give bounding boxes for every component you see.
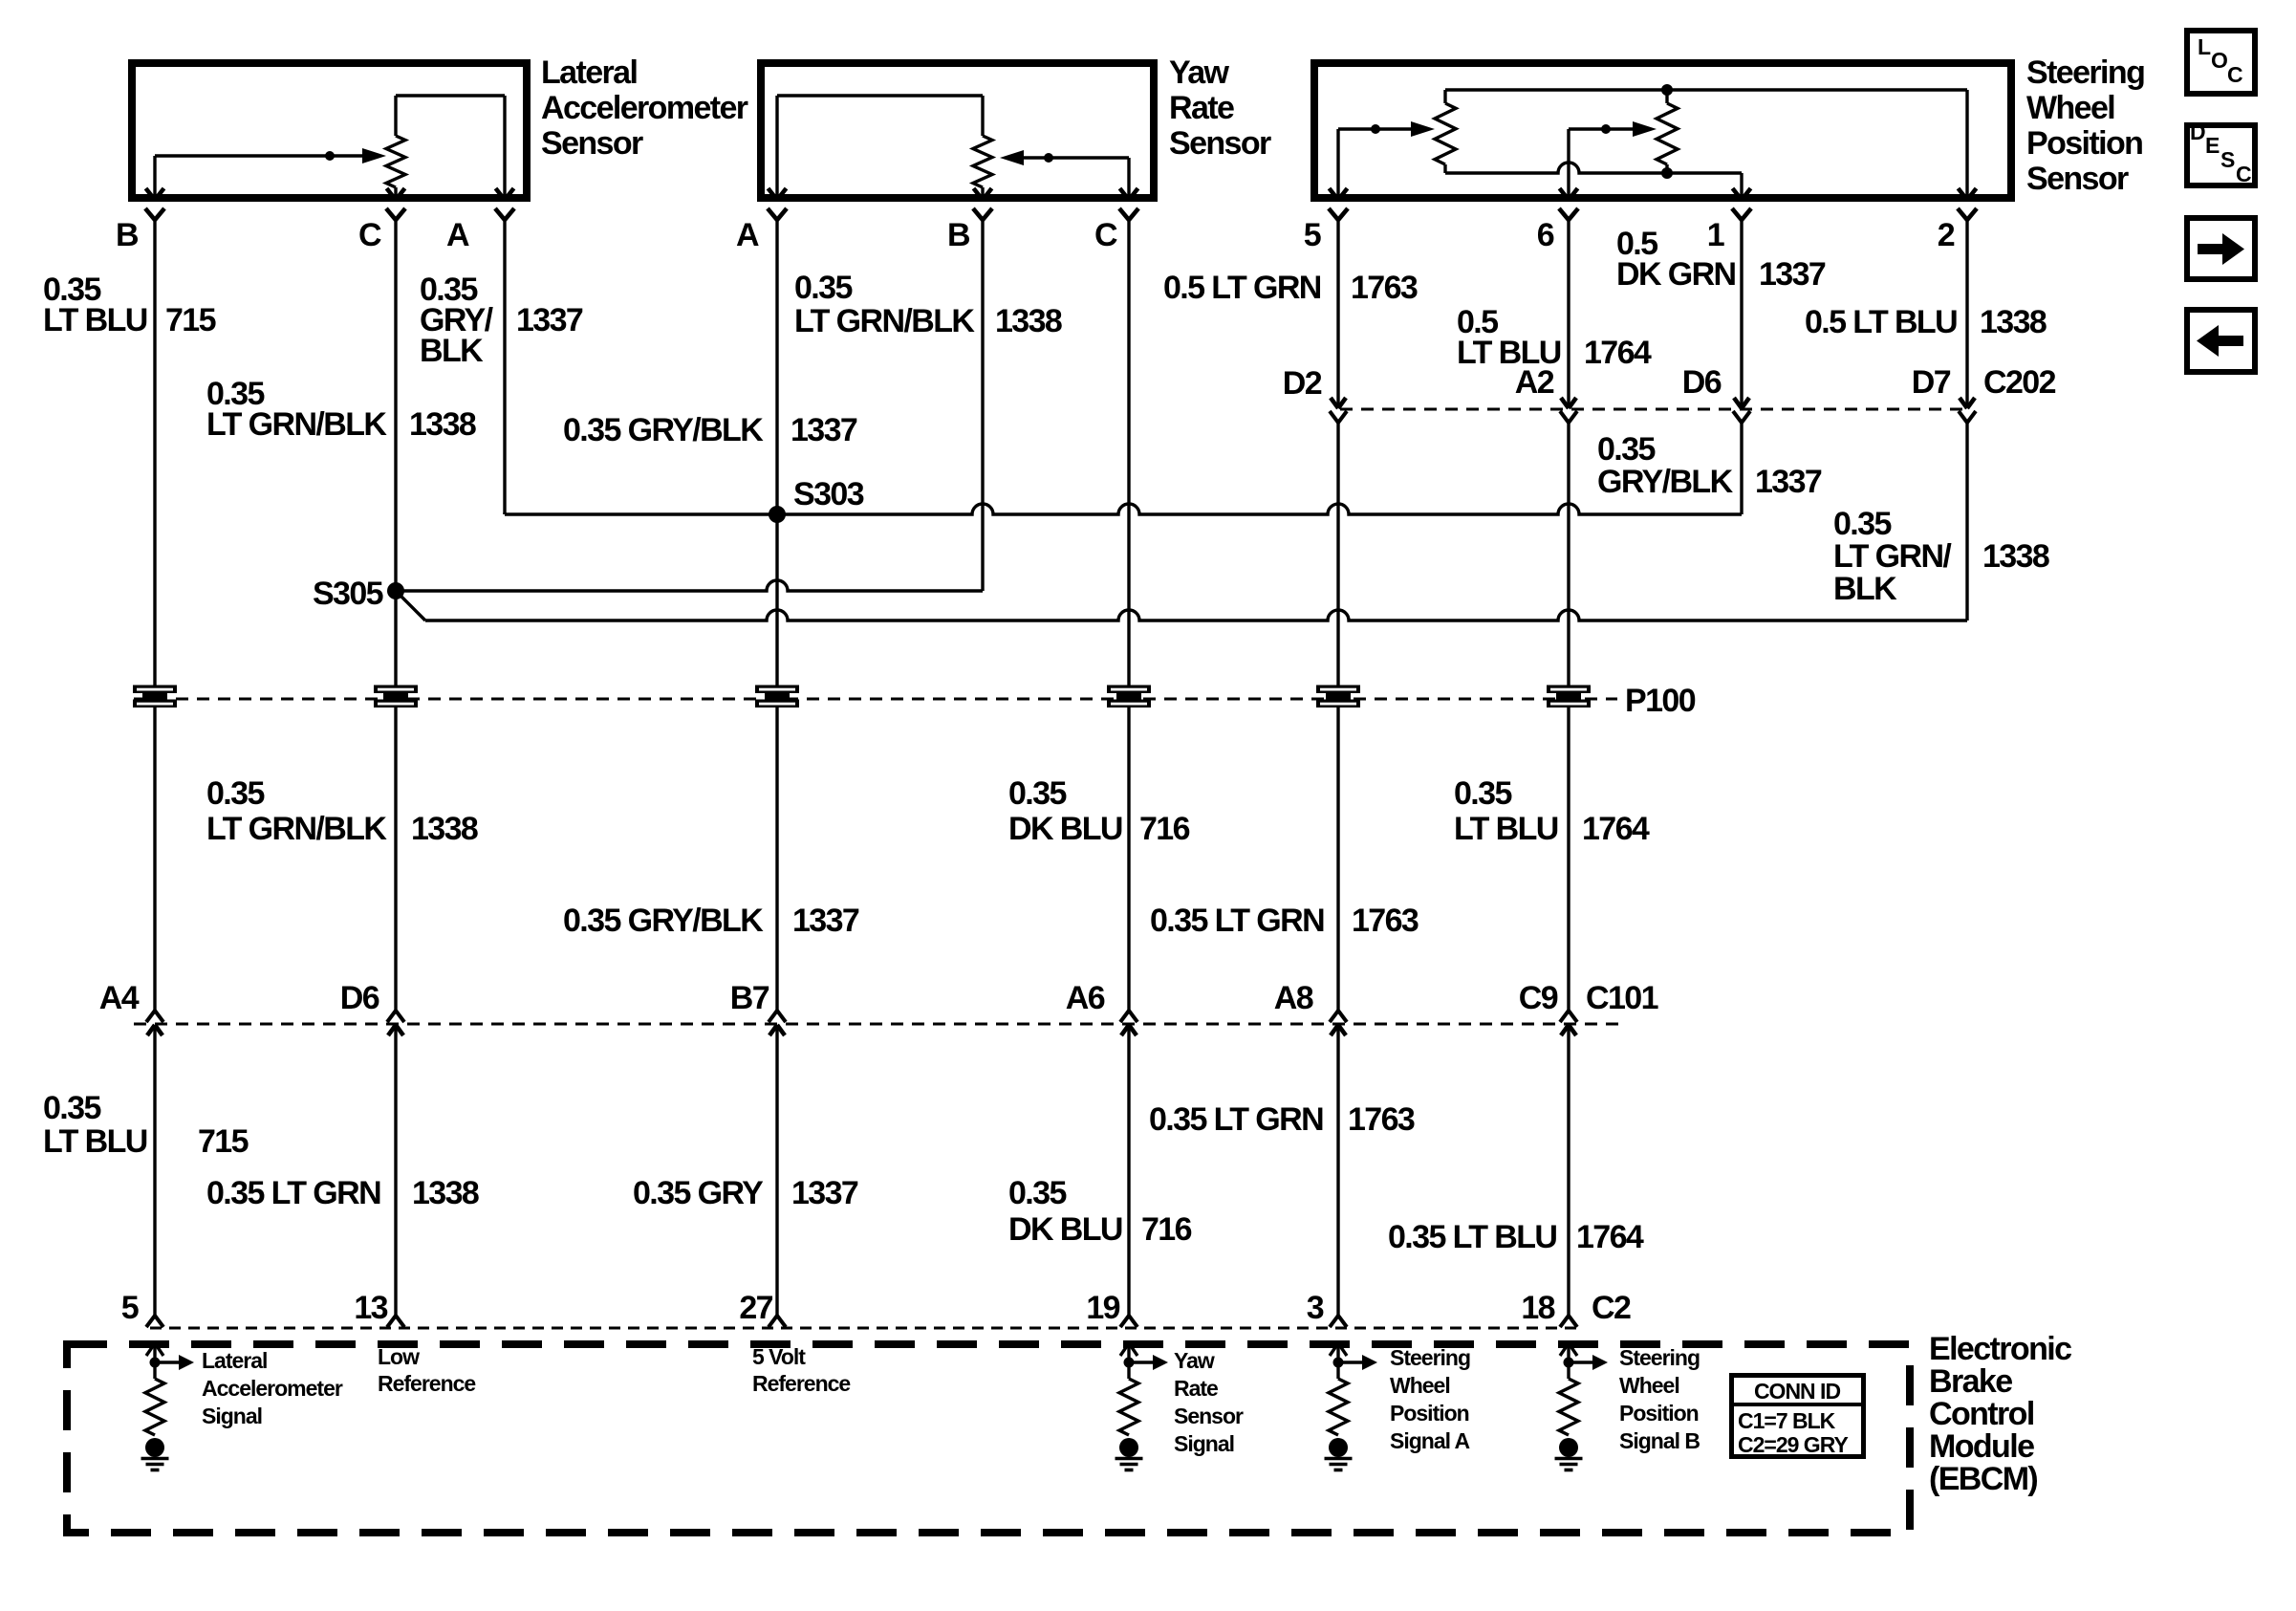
svg-text:A4: A4 bbox=[99, 980, 140, 1016]
label EBCM pin 18 bbox=[1521, 1290, 1554, 1326]
label C202 pin D7 bbox=[1912, 364, 1951, 401]
svg-text:0.35 GRY/BLK: 0.35 GRY/BLK bbox=[563, 903, 764, 939]
svg-text:715: 715 bbox=[198, 1123, 249, 1160]
label C101 pin A6 bbox=[1066, 980, 1105, 1016]
svg-text:Module: Module bbox=[1929, 1428, 2034, 1465]
svg-text:0.35: 0.35 bbox=[43, 1090, 100, 1126]
wire 1764 LT BLU (SWPS 6 / signal B) bbox=[1567, 219, 1570, 1316]
svg-text:Wheel: Wheel bbox=[1619, 1373, 1679, 1398]
svg-text:Steering: Steering bbox=[1390, 1345, 1470, 1370]
svg-text:1: 1 bbox=[1707, 217, 1724, 253]
label 0.5 LT BLU 1764 bbox=[1457, 304, 1652, 371]
svg-text:1338: 1338 bbox=[1980, 304, 2047, 340]
label 0.35 LT BLU 1764 (lower) bbox=[1388, 1219, 1644, 1255]
label C2 bbox=[1592, 1290, 1631, 1326]
svg-text:LT GRN/: LT GRN/ bbox=[1833, 538, 1952, 575]
svg-text:0.35 LT GRN: 0.35 LT GRN bbox=[1150, 903, 1324, 939]
svg-text:P100: P100 bbox=[1625, 683, 1696, 719]
junction S303 bbox=[769, 506, 786, 523]
svg-text:1338: 1338 bbox=[411, 811, 478, 847]
svg-text:13: 13 bbox=[354, 1290, 387, 1326]
svg-text:Wheel: Wheel bbox=[2026, 90, 2114, 126]
label C101 pin A4 bbox=[99, 980, 140, 1016]
svg-text:1763: 1763 bbox=[1348, 1101, 1415, 1138]
svg-text:1763: 1763 bbox=[1351, 270, 1418, 306]
svg-text:0.5 LT GRN: 0.5 LT GRN bbox=[1163, 270, 1321, 306]
svg-text:O: O bbox=[2211, 48, 2228, 73]
svg-text:A: A bbox=[736, 217, 759, 253]
label C202 bbox=[1983, 364, 2056, 401]
wiper arrow into pot 1 bbox=[1411, 121, 1435, 137]
svg-text:1338: 1338 bbox=[995, 303, 1062, 339]
svg-text:Rate: Rate bbox=[1169, 90, 1234, 126]
wiper arrow into resistor R-yaw bbox=[1000, 150, 1024, 165]
svg-text:1337: 1337 bbox=[516, 302, 583, 338]
label 0.35 GRY/BLK 1337 (Yaw A) bbox=[563, 412, 857, 448]
Steering Wheel Position Sensor box bbox=[1314, 63, 2011, 198]
svg-text:715: 715 bbox=[165, 302, 216, 338]
wire SWPS wiper 1 from pin 5 bbox=[1330, 129, 1415, 200]
svg-text:CONN ID: CONN ID bbox=[1754, 1379, 1841, 1404]
svg-text:5: 5 bbox=[1304, 217, 1321, 253]
EBCM input circuit pin 19 (resistor + ground) bbox=[1116, 1340, 1169, 1470]
svg-text:1763: 1763 bbox=[1352, 903, 1419, 939]
pin 1 terminal chevron bbox=[1707, 208, 1751, 253]
wire 1338 Low Reference (Lateral C) bbox=[394, 219, 397, 1316]
label Lateral Accelerometer Sensor bbox=[541, 54, 748, 162]
label 0.35 LT BLU 715 (lower) bbox=[43, 1090, 249, 1160]
label P100 bbox=[1625, 683, 1696, 719]
wire splice S303 bus bbox=[505, 504, 1742, 514]
svg-text:Brake: Brake bbox=[1929, 1363, 2012, 1400]
svg-text:S303: S303 bbox=[793, 476, 864, 512]
junction S305 bbox=[387, 582, 404, 599]
resistor Lateral sense element bbox=[386, 136, 405, 200]
connector C2 interface line bbox=[146, 1316, 1582, 1328]
grommet P100 dashed line bbox=[134, 698, 1617, 701]
wire Yaw wiper line bbox=[1021, 156, 1129, 159]
svg-text:A2: A2 bbox=[1515, 364, 1554, 401]
svg-text:6: 6 bbox=[1537, 217, 1554, 253]
label Electronic Brake Control Module (EBCM) bbox=[1929, 1331, 2071, 1497]
svg-text:A8: A8 bbox=[1274, 980, 1313, 1016]
svg-text:C: C bbox=[358, 217, 381, 253]
label S303 bbox=[793, 476, 864, 512]
wire Yaw pin-A riser bbox=[769, 96, 984, 200]
label EBCM pin 3 bbox=[1307, 1290, 1324, 1326]
svg-text:Signal: Signal bbox=[202, 1404, 262, 1428]
DESC nav box bbox=[2187, 120, 2255, 186]
svg-text:Signal: Signal bbox=[1174, 1431, 1234, 1456]
wire splice S305 to Yaw B bbox=[396, 580, 983, 591]
svg-text:B: B bbox=[116, 217, 139, 253]
svg-text:0.35 LT GRN: 0.35 LT GRN bbox=[1149, 1101, 1323, 1138]
svg-text:0.35: 0.35 bbox=[1008, 1175, 1066, 1211]
wire Lateral internal pin-B drop bbox=[146, 156, 164, 200]
Electronic Brake Control Module box bbox=[67, 1344, 1910, 1533]
svg-text:Yaw: Yaw bbox=[1169, 54, 1230, 91]
EBCM input circuit pin 18 (resistor + ground) bbox=[1555, 1340, 1609, 1470]
svg-text:0.35: 0.35 bbox=[206, 775, 264, 812]
pin C terminal chevron bbox=[358, 208, 405, 253]
EBCM input circuit pin 5 (resistor + ground) bbox=[141, 1340, 195, 1470]
svg-text:LT BLU: LT BLU bbox=[43, 1123, 147, 1160]
wire SWPS pin 2 drop bbox=[1959, 90, 1977, 200]
junction dot on Lateral wiper bbox=[325, 151, 335, 161]
label 0.5 LT BLU 1338 bbox=[1805, 304, 2047, 340]
label 0.35 LT GRN 1763 (lower) bbox=[1149, 1101, 1415, 1138]
wire SWPS pin 2 to C202 D7 bbox=[1965, 219, 1968, 620]
wire SWPS bottom bus to pin 1 bbox=[1445, 163, 1751, 200]
wire 1337 5V Reference (Yaw A) bbox=[775, 219, 778, 1316]
svg-text:Position: Position bbox=[2026, 125, 2142, 162]
connector C202 bbox=[1330, 398, 1976, 423]
LOC nav box bbox=[2187, 31, 2255, 94]
wire SWPS wiper 2 from pin 6 bbox=[1560, 129, 1636, 200]
svg-text:DK BLU: DK BLU bbox=[1008, 811, 1122, 847]
label EBCM pin 27 bbox=[739, 1290, 772, 1326]
svg-text:C: C bbox=[1094, 217, 1117, 253]
label EBCM pin 13 bbox=[354, 1290, 387, 1326]
back arrow nav box bbox=[2187, 310, 2255, 372]
label 5 Volt Reference bbox=[752, 1344, 850, 1396]
svg-text:Position: Position bbox=[1390, 1401, 1469, 1426]
svg-text:L: L bbox=[2198, 34, 2211, 59]
wire 1763 LT GRN (SWPS 5 / signal A) bbox=[1336, 219, 1339, 1316]
pin A terminal chevron bbox=[446, 208, 514, 253]
label 0.35 LT GRN/BLK 1338 (C202 D7) bbox=[1833, 506, 2049, 607]
wiper arrow into resistor R-lat bbox=[362, 148, 386, 163]
svg-text:GRY/BLK: GRY/BLK bbox=[1597, 464, 1734, 500]
svg-text:BLK: BLK bbox=[1833, 571, 1897, 607]
junction dot pot2 top bbox=[1661, 84, 1673, 96]
svg-text:5 Volt: 5 Volt bbox=[752, 1344, 806, 1369]
label 0.35 GRY/BLK 1337 (C202 D6) bbox=[1597, 431, 1822, 500]
svg-text:D7: D7 bbox=[1912, 364, 1951, 401]
svg-text:LT GRN/BLK: LT GRN/BLK bbox=[794, 303, 975, 339]
svg-text:0.35 GRY: 0.35 GRY bbox=[633, 1175, 764, 1211]
svg-text:Rate: Rate bbox=[1174, 1376, 1218, 1401]
svg-text:(EBCM): (EBCM) bbox=[1929, 1461, 2037, 1497]
label C202 pin D2 bbox=[1283, 365, 1322, 402]
svg-text:0.35: 0.35 bbox=[1008, 775, 1066, 812]
label 0.5 DK GRN 1337 bbox=[1616, 226, 1826, 293]
svg-text:Sensor: Sensor bbox=[2026, 161, 2129, 197]
junction dot wiper 2 bbox=[1601, 124, 1611, 134]
svg-text:716: 716 bbox=[1139, 811, 1190, 847]
svg-text:Reference: Reference bbox=[752, 1371, 850, 1396]
svg-text:Lateral: Lateral bbox=[541, 54, 637, 91]
svg-text:Sensor: Sensor bbox=[1174, 1404, 1244, 1428]
svg-text:C9: C9 bbox=[1519, 980, 1558, 1016]
junction dot on Yaw wiper bbox=[1044, 153, 1053, 163]
svg-text:Signal A: Signal A bbox=[1390, 1428, 1470, 1453]
resistor Yaw sense element bbox=[973, 136, 992, 200]
wire SWPS pin 1 to C202 D6 bbox=[1740, 219, 1743, 514]
pin 2 terminal chevron bbox=[1938, 208, 1977, 253]
Lateral Accelerometer Sensor box bbox=[132, 63, 527, 198]
wire Yaw B to S305 bbox=[981, 219, 984, 591]
pin C terminal chevron bbox=[1094, 208, 1138, 253]
svg-text:0.35: 0.35 bbox=[1833, 506, 1891, 542]
CONN ID table bbox=[1729, 1376, 1866, 1458]
svg-text:19: 19 bbox=[1086, 1290, 1119, 1326]
svg-text:5: 5 bbox=[121, 1290, 139, 1326]
wire Lateral A to S303 bbox=[503, 219, 506, 514]
grommet P100 pass-through at x=1181 bbox=[1107, 686, 1151, 708]
label 0.35 GRY/BLK 1337 (Lateral A) bbox=[420, 272, 583, 369]
svg-text:BLK: BLK bbox=[420, 333, 484, 369]
label 0.35 DK BLU 716 (mid) bbox=[1008, 775, 1190, 847]
svg-text:0.35: 0.35 bbox=[794, 270, 852, 306]
svg-text:Sensor: Sensor bbox=[1169, 125, 1271, 162]
svg-text:1764: 1764 bbox=[1582, 811, 1650, 847]
svg-text:0.35: 0.35 bbox=[1597, 431, 1655, 468]
label EBCM pin 19 bbox=[1086, 1290, 1119, 1326]
label Steering Wheel Position Signal B bbox=[1619, 1345, 1700, 1453]
label Low Reference bbox=[378, 1344, 475, 1396]
grommet P100 pass-through at x=162 bbox=[133, 686, 177, 708]
svg-text:DK GRN: DK GRN bbox=[1616, 256, 1736, 293]
label 0.35 DK BLU 716 (lower) bbox=[1008, 1175, 1192, 1248]
svg-text:0.35 GRY/BLK: 0.35 GRY/BLK bbox=[563, 412, 764, 448]
svg-text:1337: 1337 bbox=[791, 412, 857, 448]
wire Lateral wiper line bbox=[155, 154, 365, 157]
wire Yaw pin-C drop bbox=[1120, 158, 1138, 200]
pin B terminal chevron bbox=[947, 208, 992, 253]
svg-text:Lateral: Lateral bbox=[202, 1348, 267, 1373]
pin A terminal chevron bbox=[736, 208, 787, 253]
Yaw Rate Sensor box bbox=[761, 63, 1154, 198]
svg-text:Accelerometer: Accelerometer bbox=[202, 1376, 343, 1401]
svg-text:Signal B: Signal B bbox=[1619, 1428, 1700, 1453]
svg-text:18: 18 bbox=[1521, 1290, 1554, 1326]
svg-text:Accelerometer: Accelerometer bbox=[541, 90, 748, 126]
label 0.35 LT GRN/BLK 1338 (Yaw B) bbox=[794, 270, 1062, 339]
svg-text:Steering: Steering bbox=[1619, 1345, 1700, 1370]
svg-text:S305: S305 bbox=[313, 576, 383, 612]
svg-text:LT BLU: LT BLU bbox=[43, 302, 147, 338]
svg-text:0.5 LT BLU: 0.5 LT BLU bbox=[1805, 304, 1957, 340]
svg-text:DK BLU: DK BLU bbox=[1008, 1211, 1122, 1248]
label Steering Wheel Position Signal A bbox=[1390, 1345, 1470, 1453]
svg-text:27: 27 bbox=[739, 1290, 772, 1326]
EBCM input circuit pin 3 (resistor + ground) bbox=[1325, 1340, 1378, 1470]
svg-text:D6: D6 bbox=[1682, 364, 1722, 401]
wire 715 LT BLU (Lateral B to EBCM 5) bbox=[153, 219, 156, 1316]
svg-text:D2: D2 bbox=[1283, 365, 1322, 402]
junction dot pot2 bottom bbox=[1661, 167, 1673, 179]
svg-text:716: 716 bbox=[1141, 1211, 1192, 1248]
label C101 pin B7 bbox=[730, 980, 769, 1016]
svg-text:2: 2 bbox=[1938, 217, 1955, 253]
resistor SWPS pot 2 bbox=[1657, 90, 1678, 173]
wire S305 to C202 D7 bbox=[396, 591, 1967, 620]
pin B terminal chevron bbox=[116, 208, 164, 253]
svg-text:B: B bbox=[947, 217, 970, 253]
label 0.5 LT GRN 1763 bbox=[1163, 270, 1418, 306]
svg-text:A6: A6 bbox=[1066, 980, 1105, 1016]
svg-text:0.35: 0.35 bbox=[1454, 775, 1511, 812]
svg-text:Position: Position bbox=[1619, 1401, 1699, 1426]
label S305 bbox=[313, 576, 383, 612]
svg-text:D6: D6 bbox=[340, 980, 379, 1016]
wire SWPS top bus bbox=[1445, 90, 1967, 103]
junction dot wiper 1 bbox=[1371, 124, 1380, 134]
svg-text:1337: 1337 bbox=[1759, 256, 1826, 293]
wire 716 DK BLU (Yaw C signal) bbox=[1127, 219, 1130, 1316]
svg-text:Control: Control bbox=[1929, 1396, 2034, 1432]
svg-text:C2: C2 bbox=[1592, 1290, 1631, 1326]
wire Lateral resistor top to pin A bbox=[396, 96, 514, 200]
svg-text:C101: C101 bbox=[1586, 980, 1658, 1016]
forward arrow nav box bbox=[2187, 218, 2255, 279]
label 0.35 LT GRN/BLK 1338 (mid) bbox=[206, 775, 478, 847]
svg-text:1337: 1337 bbox=[792, 903, 859, 939]
resistor SWPS pot 1 bbox=[1435, 103, 1456, 173]
grommet P100 pass-through at x=414 bbox=[374, 686, 418, 708]
label 0.35 GRY/BLK 1337 (mid) bbox=[563, 903, 859, 939]
svg-text:Sensor: Sensor bbox=[541, 125, 643, 162]
grommet P100 pass-through at x=1641 bbox=[1547, 686, 1591, 708]
pin 6 terminal chevron bbox=[1537, 208, 1578, 253]
svg-text:D: D bbox=[2190, 120, 2206, 144]
label 0.35 LT GRN 1338 (lower) bbox=[206, 1175, 479, 1211]
svg-text:Reference: Reference bbox=[378, 1371, 475, 1396]
label Steering Wheel Position Sensor bbox=[2026, 54, 2144, 197]
svg-text:LT GRN/BLK: LT GRN/BLK bbox=[206, 406, 387, 443]
svg-text:C: C bbox=[2236, 162, 2252, 186]
svg-text:1338: 1338 bbox=[1982, 538, 2049, 575]
pin 5 terminal chevron bbox=[1304, 208, 1348, 253]
svg-text:1338: 1338 bbox=[412, 1175, 479, 1211]
label C202 pin A2 bbox=[1515, 364, 1554, 401]
svg-text:1764: 1764 bbox=[1576, 1219, 1644, 1255]
label C101 bbox=[1586, 980, 1658, 1016]
label C202 pin D6 bbox=[1682, 364, 1722, 401]
svg-text:C1=7 BLK: C1=7 BLK bbox=[1738, 1408, 1836, 1433]
svg-text:LT BLU: LT BLU bbox=[1454, 811, 1558, 847]
svg-text:C: C bbox=[2227, 62, 2243, 87]
svg-text:LT GRN/BLK: LT GRN/BLK bbox=[206, 811, 387, 847]
svg-text:1338: 1338 bbox=[409, 406, 476, 443]
label 0.35 LT BLU 715 bbox=[43, 272, 216, 338]
grommet P100 pass-through at x=813 bbox=[755, 686, 799, 708]
svg-text:C202: C202 bbox=[1983, 364, 2056, 401]
label Yaw Rate Sensor bbox=[1169, 54, 1271, 162]
svg-text:1337: 1337 bbox=[1755, 464, 1822, 500]
svg-text:S: S bbox=[2220, 147, 2235, 172]
svg-text:1764: 1764 bbox=[1584, 335, 1652, 371]
label Lateral Accelerometer Signal bbox=[202, 1348, 343, 1428]
label C101 pin A8 bbox=[1274, 980, 1313, 1016]
connector C101 bbox=[134, 1011, 1620, 1035]
svg-text:0.35 LT GRN: 0.35 LT GRN bbox=[206, 1175, 380, 1211]
svg-text:B7: B7 bbox=[730, 980, 769, 1016]
svg-text:0.35 LT BLU: 0.35 LT BLU bbox=[1388, 1219, 1556, 1255]
label C101 pin C9 bbox=[1519, 980, 1558, 1016]
svg-text:Yaw: Yaw bbox=[1174, 1348, 1215, 1373]
label EBCM pin 5 bbox=[121, 1290, 139, 1326]
svg-text:E: E bbox=[2205, 133, 2220, 158]
svg-text:C2=29 GRY: C2=29 GRY bbox=[1738, 1432, 1848, 1457]
svg-text:Steering: Steering bbox=[2026, 54, 2144, 91]
wiper arrow into pot 2 bbox=[1633, 121, 1657, 137]
label Yaw Rate Sensor Signal bbox=[1174, 1348, 1244, 1456]
label 0.35 GRY 1337 (lower) bbox=[633, 1175, 858, 1211]
svg-text:Wheel: Wheel bbox=[1390, 1373, 1450, 1398]
label C101 pin D6 bbox=[340, 980, 379, 1016]
svg-text:A: A bbox=[446, 217, 469, 253]
label 0.35 LT GRN/BLK 1338 (Lateral C) bbox=[206, 376, 476, 443]
label 0.35 LT GRN 1763 (mid) bbox=[1150, 903, 1419, 939]
svg-text:1337: 1337 bbox=[791, 1175, 858, 1211]
grommet P100 pass-through at x=1400 bbox=[1316, 686, 1360, 708]
svg-text:Low: Low bbox=[378, 1344, 420, 1369]
svg-text:3: 3 bbox=[1307, 1290, 1324, 1326]
label 0.35 LT BLU 1764 (mid) bbox=[1454, 775, 1650, 847]
svg-text:Electronic: Electronic bbox=[1929, 1331, 2071, 1367]
